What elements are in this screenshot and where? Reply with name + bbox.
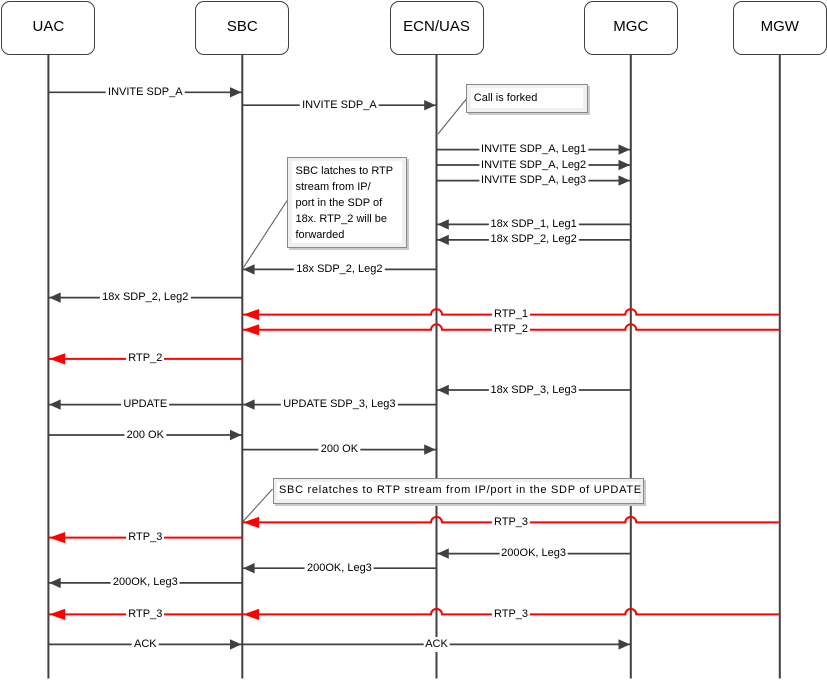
wire msg6 18x SDP_1 Leg1	[437, 223, 631, 225]
label msg10 18x SDP_3 Leg3	[488, 383, 578, 398]
wire msg13 200 OK UAC-SBC	[48, 434, 242, 436]
label rtp4 RTP_3 MGW-SBC	[492, 515, 530, 530]
note pointer Call is forked	[438, 99, 466, 134]
label msg6 18x SDP_1 Leg1	[488, 217, 578, 232]
label rtp5 RTP_3 SBC-UAC	[126, 530, 164, 545]
actor box MGC	[584, 1, 678, 55]
label msg7 18x SDP_2 Leg2	[488, 232, 578, 247]
wire msg1 INVITE SDP_A UAC-SBC	[48, 91, 242, 93]
lifeline MGC	[630, 54, 632, 679]
label msg2 INVITE SDP_A SBC-ECN	[300, 98, 379, 113]
label rtp2 RTP_2 MGW-SBC	[492, 322, 530, 337]
label msg13 200 OK UAC-SBC	[125, 428, 166, 443]
wire rtp3 RTP_2 SBC-UAC	[48, 358, 242, 360]
label msg11 UPDATE SDP_3 Leg3	[281, 397, 397, 412]
lifeline MGW	[779, 54, 781, 679]
label msg18 ACK UAC-SBC	[132, 637, 159, 652]
lifeline ECN/UAS	[436, 54, 438, 679]
label msg12 UPDATE SBC-UAC	[121, 397, 169, 412]
label msg19 ACK SBC-MGC	[423, 637, 450, 652]
wire msg10 18x SDP_3 Leg3	[437, 389, 631, 391]
note pointer SBC latches	[244, 200, 288, 268]
label msg15 200OK Leg3 MGC-ECN	[499, 546, 568, 561]
wire msg17 200OK Leg3 SBC-UAC	[48, 582, 242, 584]
label msg4 INVITE SDP_A Leg2	[479, 158, 588, 173]
wire msg14 200 OK SBC-ECN	[242, 449, 436, 451]
label msg14 200 OK SBC-ECN	[319, 442, 360, 457]
wire msg9 18x SDP_2 Leg2 SBC-UAC	[48, 297, 242, 299]
note pointer SBC relatches	[243, 489, 273, 522]
wire msg16 200OK Leg3 ECN-SBC	[242, 567, 436, 569]
wire msg19 ACK SBC-MGC	[242, 643, 631, 645]
label msg17 200OK Leg3 SBC-UAC	[111, 575, 180, 590]
wire rtp6 RTP_3 MGW-SBC 2	[242, 609, 780, 615]
actor box SBC	[195, 1, 289, 55]
wire msg18 ACK UAC-SBC	[48, 643, 242, 645]
wire rtp2 RTP_2 MGW-SBC	[242, 324, 780, 330]
wire msg8 18x SDP_2 Leg2 ECN-SBC	[242, 268, 436, 270]
note SBC relatches	[273, 478, 644, 504]
wire rtp5 RTP_3 SBC-UAC	[48, 537, 242, 539]
wire rtp4 RTP_3 MGW-SBC	[242, 517, 780, 523]
label msg8 18x SDP_2 Leg2 ECN-SBC	[294, 262, 384, 277]
label msg5 INVITE SDP_A Leg3	[479, 173, 588, 188]
actor box ECN/UAS	[390, 1, 484, 55]
wire rtp1 RTP_1 MGW-SBC	[242, 309, 780, 314]
label msg3 INVITE SDP_A Leg1	[479, 142, 588, 157]
wire msg15 200OK Leg3 MGC-ECN	[437, 553, 631, 555]
label rtp1 RTP_1 MGW-SBC	[492, 307, 530, 322]
wire msg12 UPDATE SBC-UAC	[48, 404, 242, 406]
label msg1 INVITE SDP_A UAC-SBC	[106, 85, 185, 100]
wire msg2 INVITE SDP_A SBC-ECN	[242, 104, 436, 106]
label msg16 200OK Leg3 ECN-SBC	[305, 561, 374, 576]
label rtp3 RTP_2 SBC-UAC	[126, 351, 164, 366]
wire msg3 INVITE SDP_A Leg1	[437, 149, 631, 151]
lifeline UAC	[47, 54, 49, 679]
note Call is forked	[466, 84, 588, 113]
wire msg5 INVITE SDP_A Leg3	[437, 180, 631, 182]
wire msg11 UPDATE SDP_3 Leg3	[242, 404, 436, 406]
label rtp6 RTP_3 MGW-SBC 2	[492, 607, 530, 622]
wire msg4 INVITE SDP_A Leg2	[437, 164, 631, 166]
label rtp7 RTP_3 SBC-UAC 2	[126, 607, 164, 622]
note SBC latches	[287, 157, 407, 248]
actor box UAC	[1, 1, 95, 55]
wire rtp7 RTP_3 SBC-UAC 2	[48, 613, 242, 615]
wire msg7 18x SDP_2 Leg2	[437, 239, 631, 241]
lifeline SBC	[241, 54, 243, 679]
actor box MGW	[733, 1, 827, 55]
label msg9 18x SDP_2 Leg2 SBC-UAC	[100, 290, 190, 305]
